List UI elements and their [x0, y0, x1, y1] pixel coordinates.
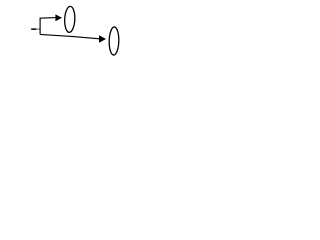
wire: top arm from trunk to upper arrowhead [40, 17, 56, 20]
wire: input stub (short dash) [31, 28, 36, 30]
node 1: upper ellipse [64, 6, 75, 32]
arrowhead: bottom edge into node 2 [99, 35, 106, 43]
wire: faint tail of input stub joining the trunk [36, 29, 40, 30]
arrowhead: top edge into node 1 [55, 14, 62, 21]
wire: vertical trunk [39, 18, 41, 35]
node 2: lower ellipse [109, 27, 119, 55]
wire: bottom arm sloping to lower arrowhead [40, 34, 99, 38]
